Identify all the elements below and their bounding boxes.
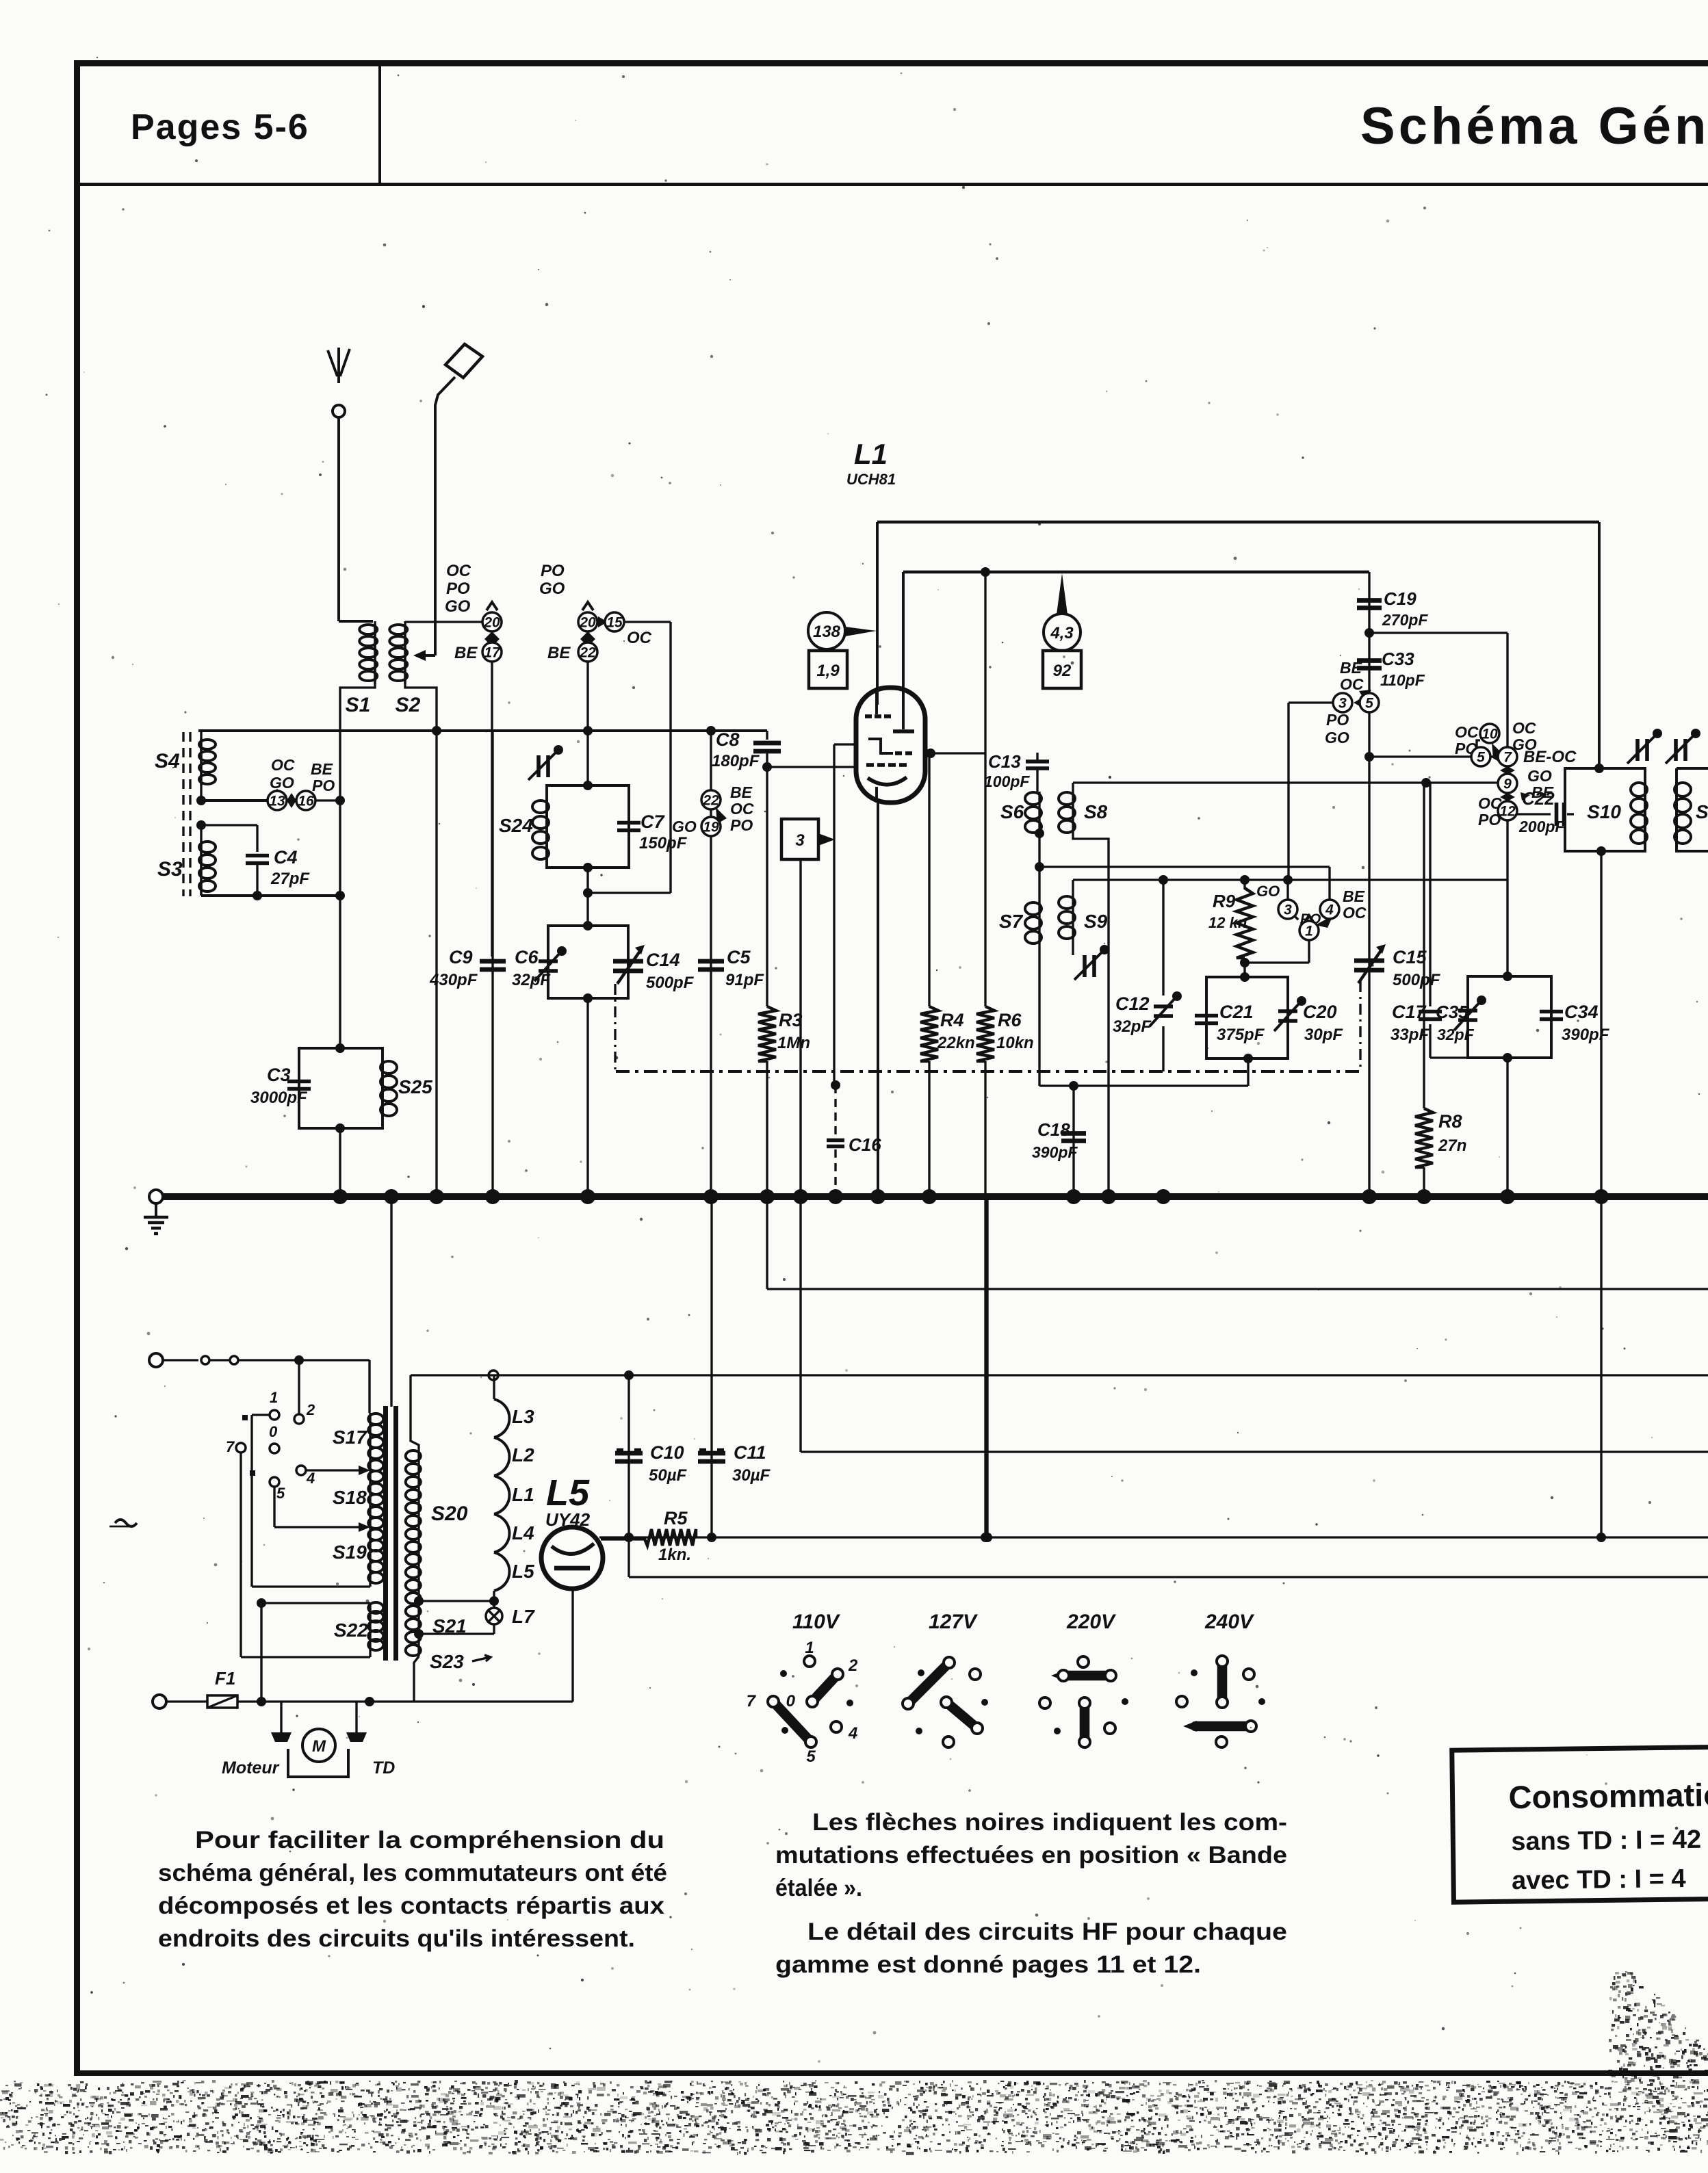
svg-text:30µF: 30µF (732, 1466, 771, 1485)
antenna symbol (337, 348, 340, 383)
capacitor C18 390pF (1072, 1086, 1074, 1194)
svg-text:C19: C19 (1384, 588, 1416, 609)
svg-text:S8: S8 (1084, 801, 1108, 822)
svg-text:BE: BE (547, 644, 571, 662)
svg-text:S22: S22 (334, 1619, 368, 1641)
frame antenna (cadre) (445, 344, 482, 378)
svg-text:Schéma Géné: Schéma Géné (1360, 97, 1708, 155)
svg-text:S23: S23 (430, 1651, 464, 1672)
wire contact bracket 7 (240, 1453, 242, 1657)
svg-text:BE: BE (730, 783, 753, 801)
tank circuit box S11 (cut) (1677, 768, 1708, 851)
svg-text:OC: OC (271, 756, 295, 774)
svg-text:OC: OC (1478, 794, 1502, 812)
svg-text:240V: 240V (1204, 1611, 1255, 1633)
capacitor C34 390pF (1540, 1010, 1563, 1014)
svg-text:390pF: 390pF (1562, 1026, 1610, 1044)
svg-text:endroits des circuits qu'ils i: endroits des circuits qu'ils intéressent… (158, 1925, 635, 1952)
svg-text:4: 4 (848, 1724, 857, 1743)
svg-text:M: M (312, 1737, 326, 1756)
trimmer C35 32pF (1458, 1009, 1477, 1013)
wire S8 bottom (1073, 833, 1109, 1194)
svg-text:1,9: 1,9 (816, 662, 840, 680)
transformer winding taps S21/S23 (414, 1596, 424, 1606)
inductor S8 (1072, 783, 1074, 792)
svg-text:C10: C10 (650, 1442, 684, 1463)
wire R9 bottom (1243, 958, 1245, 977)
capacitor C19 270pF (1368, 572, 1370, 757)
trimmer C20 30pF (1278, 1009, 1297, 1013)
capacitor C7 150pF (617, 821, 640, 825)
svg-text:C34: C34 (1564, 1002, 1599, 1022)
svg-text:180pF: 180pF (712, 752, 760, 770)
svg-text:C13: C13 (988, 751, 1021, 772)
svg-text:0: 0 (269, 1423, 278, 1440)
capacitor C33 110pF (1357, 658, 1382, 663)
svg-text:100pF: 100pF (984, 772, 1030, 790)
inductor S11 (1674, 783, 1691, 796)
trimmer above S10 (1635, 739, 1640, 761)
inductor S24 (532, 801, 549, 813)
svg-text:GO: GO (1256, 883, 1280, 900)
svg-text:15: 15 (606, 615, 623, 631)
svg-text:OC: OC (627, 629, 652, 647)
wire HT rail 1884 (766, 1197, 768, 1289)
svg-text:3000pF: 3000pF (250, 1089, 308, 1107)
svg-text:R4: R4 (940, 1010, 964, 1030)
svg-text:S3: S3 (157, 858, 183, 881)
wire tube cathode down (571, 1589, 573, 1702)
svg-text:L4: L4 (512, 1522, 534, 1544)
svg-text:S19: S19 (333, 1541, 367, 1563)
svg-text:OC: OC (1343, 904, 1367, 922)
svg-text:C17: C17 (1392, 1002, 1427, 1022)
svg-text:PO: PO (541, 562, 565, 580)
svg-text:C21: C21 (1219, 1002, 1254, 1022)
svg-text:3: 3 (1338, 696, 1347, 712)
tank circuit box C35/C34 (1468, 976, 1551, 1058)
svg-text:OC: OC (1455, 723, 1479, 741)
svg-text:R6: R6 (998, 1010, 1022, 1030)
svg-text:GO: GO (1325, 729, 1349, 746)
svg-text:27n: 27n (1438, 1136, 1466, 1155)
svg-text:L2: L2 (512, 1444, 534, 1466)
wire bus y1068 (198, 729, 767, 732)
inductor S25 (380, 1061, 397, 1074)
inductor S10 (1631, 783, 1647, 796)
svg-text:L1: L1 (512, 1484, 534, 1505)
svg-text:10: 10 (1481, 727, 1498, 742)
svg-text:OC: OC (1340, 675, 1364, 693)
vertical S25 feed (339, 731, 341, 1048)
svg-text:500pF: 500pF (646, 974, 695, 992)
wire box bottom to row 1587 (1247, 1058, 1249, 1086)
svg-text:138: 138 (813, 623, 841, 641)
header divider (378, 63, 381, 184)
wire antenna lead-in (337, 417, 340, 621)
svg-text:R5: R5 (664, 1508, 688, 1528)
svg-text:PO: PO (1326, 711, 1349, 729)
wire S20 bottom to fuse line (414, 1656, 419, 1702)
svg-text:32pF: 32pF (1437, 1026, 1475, 1043)
svg-text:OC: OC (446, 562, 471, 580)
resistor R3 1M (766, 767, 768, 1006)
svg-text:C33: C33 (1382, 649, 1414, 669)
svg-text:220V: 220V (1066, 1611, 1117, 1633)
svg-text:PO: PO (730, 816, 753, 834)
svg-text:décomposés et les contacts rép: décomposés et les contacts répartis aux (158, 1892, 665, 1919)
transformer primary S17 (368, 1414, 383, 1424)
transformer winding S22 (261, 1602, 370, 1604)
trimmer C6 32pF (539, 959, 558, 963)
svg-text:Le détail des circuits HF pour: Le détail des circuits HF pour chaque (807, 1918, 1287, 1945)
svg-text:10kn: 10kn (996, 1034, 1034, 1052)
resistor R9 12k (1243, 880, 1245, 889)
svg-text:4,3: 4,3 (1050, 624, 1074, 642)
svg-text:1Mn: 1Mn (777, 1034, 810, 1052)
inductor S9 (1072, 880, 1074, 895)
wire tube pin screen (902, 572, 905, 705)
svg-text:30pF: 30pF (1304, 1026, 1343, 1044)
svg-text:17: 17 (484, 645, 501, 661)
wire heater rail 2010 (411, 1374, 1708, 1376)
svg-text:mutations effectuées en positi: mutations effectuées en position « Bande (775, 1842, 1287, 1869)
wire contact 4 tap (306, 1469, 363, 1471)
variable capacitor C14 500pF (613, 959, 643, 964)
svg-text:19: 19 (703, 820, 719, 835)
svg-text:5: 5 (1477, 750, 1485, 766)
svg-text:5: 5 (1365, 696, 1373, 712)
wire screen rail (903, 571, 1369, 573)
capacitor C8 180pF (766, 731, 768, 740)
svg-text:4: 4 (1325, 902, 1334, 918)
switch contacts 9-12 (GO BE / OC PO) (1500, 766, 1515, 775)
svg-text:375pF: 375pF (1217, 1026, 1265, 1044)
mains AC symbol (115, 1520, 137, 1526)
tank circuit box S10 (1565, 768, 1645, 851)
svg-text:270pF: 270pF (1382, 611, 1428, 629)
inductor S4 (200, 731, 202, 801)
svg-text:L5: L5 (546, 1472, 590, 1513)
svg-text:L7: L7 (512, 1606, 535, 1627)
svg-text:127V: 127V (929, 1611, 979, 1633)
svg-text:500pF: 500pF (1393, 971, 1441, 989)
svg-text:BE: BE (1343, 887, 1365, 905)
svg-text:0: 0 (786, 1692, 796, 1710)
wire anode rail (877, 521, 1599, 523)
wire C5 branch (710, 731, 712, 1194)
svg-text:430pF: 430pF (429, 971, 478, 989)
wire contact bracket 1 (252, 1414, 270, 1416)
selector contact 2 (294, 1414, 304, 1424)
inductor S2 (404, 621, 406, 684)
svg-text:13: 13 (269, 794, 285, 809)
inductor S6 (1025, 792, 1041, 805)
svg-text:sans TD : I = 42: sans TD : I = 42 (1511, 1825, 1701, 1856)
choke string L3-L2-L1-L4-L5 (493, 1375, 495, 1399)
wire S25 box to bus (339, 1128, 341, 1194)
svg-text:S2: S2 (396, 694, 421, 716)
svg-text:R9: R9 (1213, 891, 1236, 911)
capacitor C3 3000pF (287, 1080, 311, 1084)
svg-text:Moteur: Moteur (222, 1758, 280, 1778)
svg-text:3: 3 (1284, 902, 1292, 918)
svg-text:gamme est donné pages 11 et 12: gamme est donné pages 11 et 12. (775, 1951, 1201, 1978)
wire selector to corner (624, 621, 671, 623)
bus junction dots (333, 1189, 348, 1204)
svg-text:390pF: 390pF (1032, 1143, 1078, 1161)
svg-text:S7: S7 (999, 911, 1024, 932)
test point meter 138V (808, 612, 845, 649)
svg-text:C3: C3 (267, 1065, 291, 1085)
mechanical link C15 (dash-dot) (1359, 981, 1361, 1071)
svg-text:C15: C15 (1393, 947, 1427, 967)
inductor S3 (200, 825, 202, 896)
svg-text:OC: OC (1512, 719, 1536, 737)
capacitor C9 430pF (491, 731, 493, 1194)
svg-text:TD: TD (372, 1758, 395, 1778)
resistor R8 27ohm (1423, 783, 1425, 1108)
capacitor C21 375pF (1195, 1014, 1218, 1018)
svg-text:7: 7 (1503, 750, 1512, 766)
wire tube pin anode (876, 522, 879, 705)
svg-text:110pF: 110pF (1380, 671, 1425, 689)
capacitor C16 (dashed AVC) (833, 744, 835, 1085)
junction row 1106 (1364, 752, 1374, 762)
svg-text:S6: S6 (1000, 801, 1024, 822)
svg-text:C18: C18 (1037, 1119, 1070, 1140)
svg-text:Les flèches noires indiquent l: Les flèches noires indiquent les com- (812, 1809, 1287, 1836)
svg-text:S20: S20 (431, 1502, 468, 1525)
motor M (302, 1729, 335, 1762)
tank circuit box C21/C20 (1206, 977, 1288, 1058)
wire S2-bottom to ground bus (435, 731, 437, 1194)
svg-text:F1: F1 (215, 1668, 235, 1689)
test value box 92 (1043, 651, 1081, 688)
capacitor C5 91pF (698, 959, 724, 964)
resistor R6 10k (981, 567, 990, 577)
AVC dash-dot bus (616, 1070, 1360, 1073)
wire 22 down to S24 (586, 662, 588, 785)
selector contact 5 (270, 1477, 279, 1487)
selector contact 4 (296, 1466, 306, 1475)
wire 1443 branch (986, 1197, 988, 1537)
ground bus (163, 1193, 1708, 1200)
switch contacts 22-19 (BE OC PO / GO) (701, 790, 721, 809)
svg-text:C20: C20 (1303, 1002, 1337, 1022)
svg-text:22: 22 (579, 645, 596, 661)
header rule (74, 183, 1708, 186)
wire grid to tube (767, 766, 857, 768)
svg-text:S9: S9 (1084, 911, 1108, 932)
svg-text:GO: GO (539, 580, 565, 598)
svg-text:R3: R3 (779, 1010, 803, 1030)
svg-text:200pF: 200pF (1518, 818, 1565, 835)
svg-text:étalée ».: étalée ». (775, 1875, 862, 1901)
transformer secondary S20 (411, 1375, 419, 1450)
svg-text:BE: BE (311, 760, 333, 778)
capacitor C4 27pF (246, 854, 269, 858)
svg-text:L3: L3 (512, 1406, 534, 1427)
tap arrow into S2 (424, 654, 435, 657)
svg-text:PO: PO (1478, 811, 1501, 829)
wire grid3 hook (834, 743, 856, 745)
tank circuit box C6/C14 (548, 926, 628, 998)
svg-text:BE: BE (1340, 659, 1362, 677)
svg-text:32pF: 32pF (512, 971, 551, 989)
resistor R4 22k (928, 753, 930, 1006)
svg-text:BE-OC: BE-OC (1523, 748, 1577, 766)
wire box to bus (586, 998, 588, 1194)
svg-text:20: 20 (483, 615, 500, 631)
svg-text:150pF: 150pF (639, 834, 688, 853)
svg-text:C22: C22 (1522, 788, 1555, 809)
svg-text:C6: C6 (515, 947, 539, 967)
svg-text:S25: S25 (398, 1076, 432, 1097)
svg-text:C14: C14 (646, 950, 680, 970)
trimmer above S24 (536, 755, 541, 777)
tank circuit box S24/C7 (547, 785, 629, 868)
core of S3/S4 (dashed) (182, 732, 184, 896)
svg-text:C12: C12 (1115, 993, 1150, 1014)
svg-text:16: 16 (298, 794, 314, 809)
svg-text:9: 9 (1503, 777, 1512, 792)
mechanical link C14 (dash-dot) (614, 984, 616, 1071)
wire frame antenna lead (435, 377, 455, 655)
wire AVC rail 2247 (599, 1536, 1708, 1538)
svg-text:1: 1 (1305, 924, 1313, 939)
wire contact 5 tap (273, 1487, 275, 1527)
inductor S1 (374, 621, 376, 684)
variable capacitor C15 500pF (1354, 959, 1384, 963)
wire S22 to fuse line (260, 1603, 262, 1702)
wire 12 to bus and C34 box (1506, 820, 1508, 976)
svg-text:4: 4 (306, 1470, 315, 1487)
svg-text:91pF: 91pF (725, 971, 764, 989)
transformer core (383, 1406, 388, 1661)
transformer primary S19 (368, 1529, 383, 1540)
junction S6/S7 (1035, 829, 1044, 838)
svg-text:2: 2 (848, 1656, 858, 1675)
trimmer C12 32pF (1162, 880, 1164, 996)
svg-text:S1: S1 (346, 694, 371, 716)
wire AVC row 1286 (1073, 879, 1508, 881)
wire S8 top to switch 9 (1073, 781, 1499, 783)
svg-text:92: 92 (1053, 662, 1072, 680)
tank circuit box S25/C3 (299, 1048, 383, 1128)
svg-text:5: 5 (276, 1485, 285, 1502)
capacitor C17 33pF (1429, 783, 1431, 1006)
svg-text:S4: S4 (155, 750, 180, 772)
pilot lamp L7 (486, 1608, 502, 1624)
wire S2 top to selector (405, 621, 492, 623)
svg-text:12: 12 (1499, 804, 1516, 820)
wire S24 to C6 box (586, 868, 588, 926)
svg-text:GO: GO (672, 818, 697, 835)
svg-text:C9: C9 (449, 947, 473, 967)
consumption info box (1452, 1747, 1708, 1902)
svg-text:1: 1 (805, 1639, 814, 1657)
svg-text:PO: PO (312, 777, 335, 794)
svg-text:27pF: 27pF (270, 870, 310, 888)
svg-text:3: 3 (795, 831, 805, 850)
svg-text:C35: C35 (1436, 1002, 1468, 1022)
wire tube plate right (925, 752, 986, 754)
svg-text:110V: 110V (792, 1611, 841, 1633)
svg-text:Pour faciliter la compréhensio: Pour faciliter la compréhension du (195, 1827, 664, 1853)
svg-text:L1: L1 (854, 438, 888, 470)
terminal box 3 (781, 819, 818, 859)
svg-text:7: 7 (226, 1438, 235, 1455)
trimmer above S11 (1674, 739, 1678, 761)
wire tube plate to R5 (601, 1538, 644, 1540)
capacitor C10 50uF (627, 1375, 630, 1537)
svg-text:UCH81: UCH81 (846, 471, 896, 488)
svg-text:C5: C5 (727, 947, 751, 967)
wire 3 to left branch (1289, 701, 1333, 703)
svg-text:S10: S10 (1587, 801, 1621, 822)
svg-text:S17: S17 (333, 1427, 367, 1448)
svg-text:2: 2 (306, 1401, 315, 1418)
ground symbol (155, 1203, 157, 1217)
wire S10 to bus (1600, 851, 1602, 1194)
svg-text:C7: C7 (640, 811, 665, 832)
wire rail corner down to S10 (1598, 522, 1601, 768)
svg-text:20: 20 (579, 615, 596, 631)
svg-text:GO: GO (445, 597, 471, 616)
svg-text:C4: C4 (274, 847, 298, 868)
svg-text:C11: C11 (734, 1442, 766, 1463)
capacitor C22 200pF (1517, 813, 1551, 815)
svg-text:L5: L5 (512, 1561, 534, 1582)
svg-text:5: 5 (806, 1747, 816, 1766)
svg-text:R8: R8 (1438, 1111, 1462, 1132)
svg-text:Pages 5-6: Pages 5-6 (131, 107, 309, 147)
svg-text:12 kn: 12 kn (1208, 914, 1247, 931)
svg-text:50µF: 50µF (649, 1466, 688, 1485)
wire 17 to C9 (491, 662, 493, 957)
wire S21 taps (419, 1600, 494, 1602)
svg-text:22kn: 22kn (937, 1034, 975, 1052)
svg-text:22: 22 (702, 793, 719, 809)
svg-text:PO: PO (446, 580, 470, 598)
wire C11 branch (710, 1197, 712, 1537)
svg-text:1kn.: 1kn. (658, 1546, 691, 1564)
fuse line (153, 1695, 166, 1708)
inductor S7 (1038, 867, 1040, 902)
svg-text:GO: GO (270, 774, 294, 792)
svg-text:schéma général, les commutateu: schéma général, les commutateurs ont été (158, 1860, 667, 1886)
wire 3-box down (799, 859, 801, 1194)
wire rail 2305 (627, 1537, 630, 1577)
svg-text:S11: S11 (1696, 801, 1708, 822)
svg-text:BE: BE (454, 644, 478, 662)
wire core ground (390, 1197, 392, 1407)
capacitor C13 100pF (1036, 753, 1038, 761)
wire S4 tap row (196, 796, 206, 805)
svg-text:32pF: 32pF (1113, 1017, 1152, 1036)
svg-text:7: 7 (747, 1692, 757, 1710)
wire S3 top / C4 branch (196, 820, 206, 830)
fuse F1 (207, 1695, 237, 1708)
transformer primary S18 (368, 1471, 383, 1482)
wire S3 bottom row (200, 892, 202, 896)
mains terminal A (149, 1353, 163, 1367)
wire tube cathode to bus (877, 802, 879, 1194)
svg-text:avec TD : I = 4: avec TD : I = 4 (1512, 1864, 1686, 1895)
svg-text:1: 1 (270, 1389, 278, 1406)
svg-text:OC: OC (730, 800, 754, 818)
